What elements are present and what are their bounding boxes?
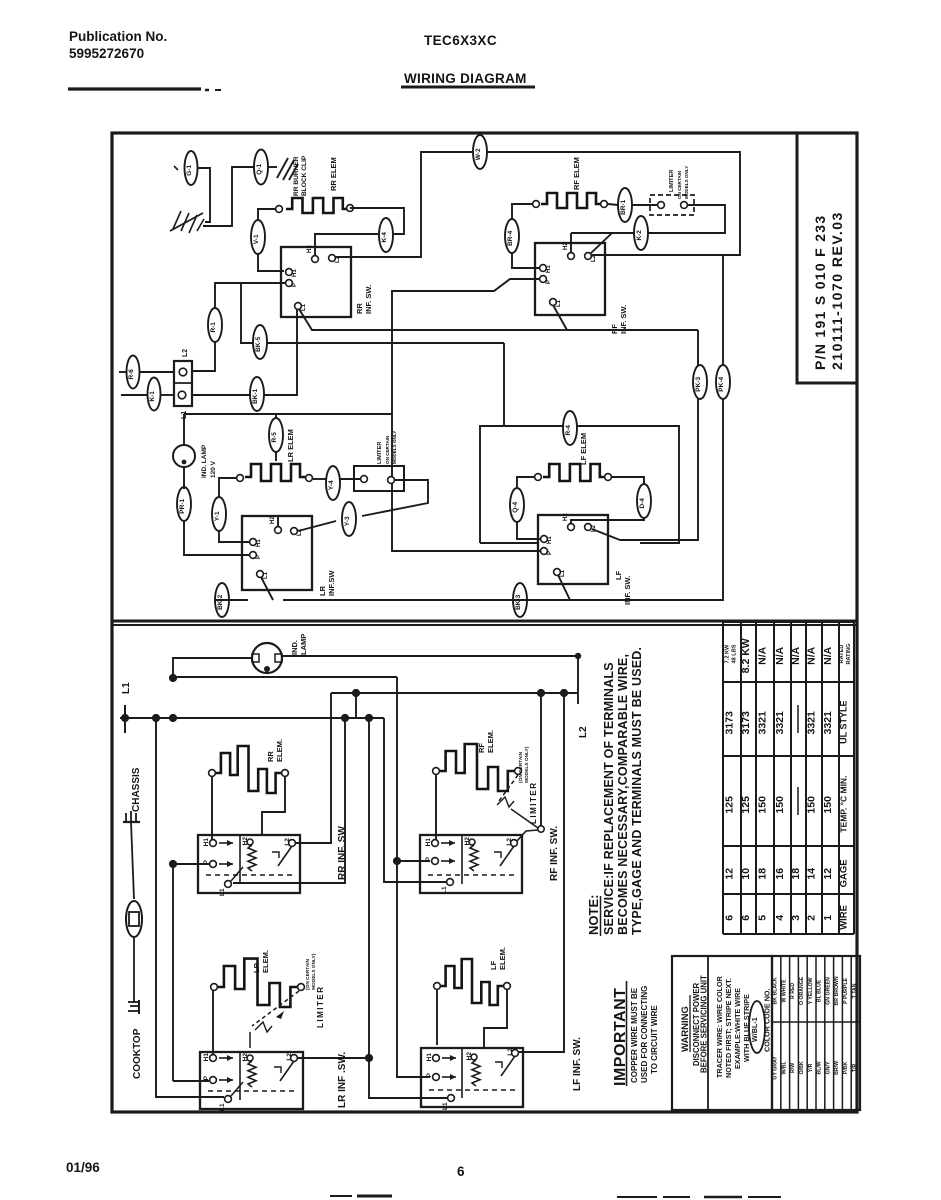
svg-text:Y/R: Y/R	[808, 1063, 814, 1072]
svg-text:BK-5: BK-5	[255, 336, 262, 352]
junction dot RR P feeder	[169, 860, 177, 868]
svg-text:MODELS ONLY): MODELS ONLY)	[524, 746, 530, 783]
svg-text:Y-4: Y-4	[328, 480, 335, 490]
wire tag BK-3	[513, 583, 527, 617]
feeder line y693	[331, 692, 578, 694]
ground symbol G-1 ellipse tag	[185, 151, 198, 185]
svg-text:L2: L2	[578, 726, 589, 738]
svg-text:UL STYLE: UL STYLE	[839, 701, 849, 744]
svg-text:L1: L1	[121, 682, 132, 694]
wire LF elem right to D-4 to LF H2	[612, 477, 644, 484]
wire tag Q-1	[254, 150, 268, 185]
feeder x369 to LF L1	[369, 718, 447, 1098]
svg-text:ON CERTAIN: ON CERTAIN	[677, 170, 682, 199]
wire RR L2 loop over top to RF L2	[335, 152, 473, 257]
wire limiter to K-2 to RF switch L2/H2	[648, 205, 725, 233]
svg-text:BK-1: BK-1	[252, 388, 259, 404]
svg-text:RATED: RATED	[839, 645, 845, 664]
fusible link symbol	[126, 901, 142, 937]
burner block clip hatch	[277, 158, 288, 178]
wire tag R-4	[563, 411, 577, 445]
wire LF P feed riser	[503, 343, 505, 426]
wire tag V-1	[251, 220, 265, 254]
svg-text:L2: L2	[506, 838, 513, 846]
svg-text:6: 6	[457, 1164, 465, 1179]
svg-text:WIRING DIAGRAM: WIRING DIAGRAM	[404, 71, 527, 86]
color code table grid	[772, 956, 860, 1110]
svg-text:Q-4: Q-4	[512, 502, 519, 513]
wire LR cooktop P feeder	[173, 1080, 209, 1082]
RR cooktop terminal L1	[225, 881, 232, 888]
svg-text:150: 150	[757, 796, 769, 814]
svg-text:H2: H2	[307, 245, 313, 253]
LF switch terminal L2	[585, 524, 592, 531]
svg-text:LIMITER: LIMITER	[529, 782, 538, 825]
wire RR elem right to coil	[262, 777, 285, 835]
svg-text:W-2: W-2	[475, 148, 482, 160]
RR cooktop terminal L2	[289, 840, 296, 847]
wire tag Y-4	[326, 466, 340, 500]
svg-text:N/A: N/A	[822, 646, 834, 665]
RR switch terminal L1	[295, 303, 302, 310]
RR cooktop switch contact	[278, 846, 292, 866]
infinite switch LF INF. SW. box (oven)	[538, 515, 608, 584]
wire tag BK-5	[253, 325, 267, 359]
wire LR elem left to Y-1 to LR H1	[219, 478, 236, 497]
cooktop limiter RF dashed contact	[499, 775, 518, 801]
svg-text:LF ELEM: LF ELEM	[579, 433, 588, 465]
svg-text:7.2 KW: 7.2 KW	[725, 644, 731, 663]
LF switch terminal P	[541, 548, 548, 555]
wire RF L2 to limiter node	[517, 830, 538, 841]
svg-text:L1: L1	[560, 569, 566, 577]
wire limiter LR to L2	[362, 480, 428, 516]
wire RF L1 diagonal joining bus	[553, 305, 698, 330]
wire tag Y-1	[212, 497, 226, 531]
LF cooktop switch dashed link	[429, 1089, 519, 1091]
svg-text:RF: RF	[610, 324, 619, 334]
svg-text:P/BK: P/BK	[843, 1061, 849, 1074]
LR cooktop terminal L2	[291, 1055, 298, 1062]
wire LF elem right to coil	[484, 989, 507, 1048]
svg-text:LF: LF	[489, 960, 498, 970]
svg-text:TO CIRCUIT WIRE: TO CIRCUIT WIRE	[650, 1005, 659, 1074]
svg-text:RATING: RATING	[846, 643, 852, 664]
LF cooktop terminal L1	[448, 1095, 455, 1102]
wire LR H2 stub	[277, 516, 279, 527]
svg-text:CHASSIS: CHASSIS	[131, 767, 142, 812]
feeder x345 RR L1	[233, 718, 345, 883]
wire tag K-4	[379, 218, 393, 252]
wire tag PR-1	[177, 487, 191, 521]
wire bus y330 continuing from RR L1	[560, 329, 567, 331]
wire lamp right to L2 terminal	[282, 656, 578, 704]
infinite switch LR INF. SW. box (cooktop)	[200, 1052, 303, 1109]
svg-text:L2: L2	[507, 1048, 514, 1056]
svg-text:COLOR CODE NO.: COLOR CODE NO.	[763, 989, 772, 1053]
warning box	[672, 956, 772, 1110]
svg-text:3: 3	[790, 915, 802, 921]
svg-text:16: 16	[774, 868, 786, 880]
LR cooktop coil H2	[247, 1055, 253, 1061]
LR switch terminal L1	[257, 571, 264, 578]
LR cooktop terminal P	[210, 1077, 217, 1084]
LF switch terminal L1	[554, 569, 561, 576]
svg-text:H2: H2	[464, 837, 471, 846]
RF switch terminal H2	[568, 253, 575, 260]
RF cooktop switch contact	[500, 846, 514, 866]
svg-text:P: P	[547, 551, 553, 555]
svg-text:TEC6X3XC: TEC6X3XC	[424, 33, 497, 48]
svg-text:RF ELEM: RF ELEM	[572, 157, 581, 190]
wire lamp to PR-1 to LR P	[183, 467, 185, 489]
svg-text:N/A: N/A	[774, 646, 786, 665]
wire R-5 element tap riser	[275, 414, 277, 419]
svg-text:150: 150	[774, 796, 786, 814]
svg-text:TYPE,GAGE AND TERMINALS MUST B: TYPE,GAGE AND TERMINALS MUST BE USED.	[630, 647, 644, 935]
svg-text:L1: L1	[219, 1103, 226, 1111]
svg-text:ELEM.: ELEM.	[486, 730, 495, 753]
svg-text:LF: LF	[614, 570, 623, 580]
svg-text:210111-1070 REV.03: 210111-1070 REV.03	[829, 211, 845, 370]
svg-text:150: 150	[806, 796, 818, 814]
wire LF L1 diagonal to bus	[558, 575, 570, 600]
svg-text:T/R: T/R	[852, 1063, 858, 1072]
wire tag BR-1	[618, 188, 632, 222]
junction dot lamp feeder	[169, 674, 177, 682]
svg-text:L2: L2	[286, 1053, 293, 1061]
svg-text:H2: H2	[242, 837, 249, 846]
LF switch terminal H2	[568, 524, 575, 531]
svg-text:P: P	[292, 283, 298, 287]
svg-text:LIMITER: LIMITER	[669, 170, 675, 192]
svg-text:R-6: R-6	[128, 369, 135, 380]
svg-text:LR INF .SW.: LR INF .SW.	[337, 1052, 348, 1108]
svg-text:L1: L1	[556, 299, 562, 307]
wire RR P to terminal block riser and BK-5 run	[241, 283, 285, 343]
heating element LF ELEM (oven)	[543, 464, 605, 481]
oven indicator lamp	[173, 445, 195, 467]
svg-text:COPPER WIRE MUST BE: COPPER WIRE MUST BE	[630, 987, 639, 1083]
RR switch terminal H1	[286, 269, 293, 276]
svg-text:H2: H2	[242, 1053, 249, 1062]
svg-text:BR-4: BR-4	[507, 230, 514, 246]
svg-text:ELEM.: ELEM.	[498, 947, 507, 970]
wire RF P run to indicator feed	[392, 279, 540, 551]
junction dot RF P	[393, 857, 401, 865]
svg-text:6: 6	[740, 915, 752, 921]
RF cooktop terminal P	[432, 858, 439, 865]
svg-text:LIMITER: LIMITER	[377, 442, 383, 464]
svg-text:6: 6	[724, 915, 736, 921]
svg-text:RR BURNER: RR BURNER	[293, 156, 300, 196]
svg-text:COOKTOP: COOKTOP	[132, 1028, 143, 1079]
wire loop rectangle around LF elem	[480, 426, 563, 543]
wire RF-L1 bus riser down to LF L2 node	[697, 330, 699, 365]
heating element RR ELEM (cooktop)	[216, 746, 281, 793]
chassis ground symbol	[125, 813, 127, 821]
title underline rule	[68, 87, 201, 90]
divider line between oven and cooktop sections	[112, 620, 857, 623]
junction dots on y693	[352, 689, 360, 697]
heating element LR ELEM (cooktop)	[218, 959, 297, 1007]
cooktop indicator lamp	[252, 643, 282, 673]
wire LR cooktop L1 feeder	[156, 718, 224, 1097]
RR switch terminal H2	[312, 256, 319, 263]
cooktop terminal symbol	[138, 1000, 140, 1014]
svg-text:3321: 3321	[806, 711, 818, 735]
svg-text:W WHITE: W WHITE	[781, 979, 787, 1003]
svg-text:BEFORE SERVICING UNIT: BEFORE SERVICING UNIT	[700, 975, 709, 1073]
svg-text:LR ELEM: LR ELEM	[286, 429, 295, 462]
svg-text:L1: L1	[442, 1102, 449, 1110]
svg-text:10: 10	[740, 868, 752, 880]
wire terminal block L1 to BK-1 to RR L1	[192, 394, 250, 396]
wire RF elem left to H1	[435, 775, 437, 840]
LF switch terminal H1	[541, 536, 548, 543]
svg-text:P: P	[546, 280, 552, 284]
svg-text:P PURPLE: P PURPLE	[843, 977, 849, 1003]
wire LR elem right to limiter	[313, 478, 326, 480]
svg-text:T TAN: T TAN	[852, 983, 858, 998]
svg-text:H1: H1	[203, 1053, 210, 1062]
svg-text:V-1: V-1	[253, 234, 260, 244]
wire tag R-1	[208, 308, 222, 342]
svg-text:BR BROWN: BR BROWN	[834, 976, 840, 1005]
svg-text:R-1: R-1	[210, 322, 217, 333]
feeder x357 bus link	[355, 693, 357, 718]
feeder x541 to RF limiter	[540, 693, 542, 827]
LR cooktop switch contact	[280, 1061, 294, 1081]
supply terminal block	[174, 361, 192, 406]
wire tag BK-2	[215, 583, 229, 617]
junction dot at L2 drop	[575, 653, 581, 659]
svg-text:(ON CERTAIN: (ON CERTAIN	[305, 958, 311, 990]
wire supply L1 lead	[121, 394, 147, 396]
svg-text:RF: RF	[477, 743, 486, 753]
LR cooktop terminal H1	[210, 1055, 217, 1062]
wire tag W-2	[473, 135, 487, 169]
svg-text:Publication No.: Publication No.	[69, 29, 167, 44]
heating element LF ELEM (cooktop)	[441, 959, 503, 1005]
svg-text:RR ELEM: RR ELEM	[329, 157, 338, 191]
oven limiter (dashed, on certain models)	[650, 195, 694, 215]
svg-text:K-4: K-4	[381, 232, 388, 243]
svg-text:BK-3: BK-3	[515, 594, 522, 610]
svg-text:R-5: R-5	[271, 432, 278, 443]
diagram outer border	[112, 133, 857, 1112]
svg-text:K-2: K-2	[636, 230, 643, 241]
cooktop limiter LR dashed contact	[252, 991, 299, 1026]
wire tag K-2	[634, 216, 648, 250]
RF cooktop terminal H1	[432, 840, 439, 847]
wire RR cooktop L2 out	[296, 842, 331, 844]
svg-text:14: 14	[806, 868, 818, 880]
svg-text:INF. SW.: INF. SW.	[623, 576, 632, 605]
svg-text:GN GREEN: GN GREEN	[825, 977, 831, 1005]
heating element RF ELEM (oven)	[541, 193, 601, 208]
wire tag R-5	[269, 418, 283, 452]
LR switch terminal H2	[275, 527, 282, 534]
svg-text:L1: L1	[263, 571, 269, 579]
RR cooktop L1 contact arm	[231, 867, 243, 881]
RF switch terminal H1	[540, 265, 547, 272]
wire LR-L1 bus riser	[722, 255, 724, 365]
svg-text:18: 18	[790, 868, 802, 880]
svg-text:G-1: G-1	[186, 165, 193, 176]
RR cooktop terminal H1	[210, 840, 217, 847]
svg-text:L1: L1	[219, 888, 226, 896]
svg-text:(ON CERTAIN: (ON CERTAIN	[518, 751, 524, 783]
LR switch terminal P	[250, 552, 257, 559]
wire G-1 to chassis hatch	[198, 168, 210, 222]
RF cooktop terminal L1	[447, 879, 454, 886]
svg-text:H2: H2	[563, 513, 569, 521]
svg-text:2: 2	[806, 915, 818, 921]
RR switch terminal P	[286, 280, 293, 287]
feeder x384 to RF L1	[384, 718, 446, 882]
heating element RR ELEM (oven)	[286, 198, 348, 213]
svg-text:BR/W: BR/W	[834, 1061, 840, 1075]
wire tag R-6	[127, 356, 140, 389]
svg-text:Q-1: Q-1	[256, 164, 263, 175]
svg-text:1: 1	[822, 915, 834, 921]
svg-text:TRACER WIRE: WIRE COLOR: TRACER WIRE: WIRE COLOR	[715, 975, 724, 1078]
svg-text:L2: L2	[591, 524, 597, 532]
svg-text:IND. LAMP: IND. LAMP	[201, 444, 208, 478]
svg-text:BLOCK CLIP: BLOCK CLIP	[301, 155, 308, 196]
svg-text:P: P	[425, 856, 432, 861]
wire gauge table grid	[722, 622, 724, 934]
svg-text:BK-2: BK-2	[217, 594, 224, 610]
svg-text:BR-1: BR-1	[620, 199, 627, 215]
wire Q-1 to block clip hatch	[268, 166, 277, 168]
svg-text:PK-4: PK-4	[718, 377, 725, 392]
chassis ground hatch 1	[170, 213, 203, 231]
svg-text:RF INF. SW.: RF INF. SW.	[549, 826, 560, 881]
RF switch terminal L1	[550, 299, 557, 306]
wire RR cooktop P	[173, 863, 209, 865]
wire to RF P	[397, 860, 430, 862]
svg-text:O ORANGE: O ORANGE	[799, 976, 805, 1005]
svg-text:BECOMES NECESSARY,COMPARABLE W: BECOMES NECESSARY,COMPARABLE WIRE,	[616, 654, 630, 935]
svg-text:H1: H1	[256, 539, 262, 547]
LR cooktop terminal L1	[225, 1096, 232, 1103]
wire RF H2 stub	[570, 233, 572, 253]
svg-text:ON CERTAIN: ON CERTAIN	[385, 435, 390, 464]
svg-text:R RED: R RED	[790, 983, 796, 999]
svg-text:RR: RR	[355, 303, 364, 314]
svg-text:H1: H1	[546, 265, 552, 273]
svg-text:12: 12	[822, 868, 834, 880]
feeder x564 to LF L2	[519, 693, 564, 1052]
svg-text:TEMP. °C MIN.: TEMP. °C MIN.	[839, 776, 849, 833]
svg-text:3321: 3321	[757, 711, 769, 735]
svg-text:INF. SW.: INF. SW.	[364, 285, 373, 314]
wire RR elem left to H1	[211, 777, 213, 840]
infinite switch RF INF. SW. box	[535, 243, 605, 315]
wire RR elem right to K-4 to RR switch H2	[350, 208, 404, 234]
wire tag PK-4	[716, 365, 730, 399]
RF cooktop switch dashed link	[428, 874, 518, 876]
infinite switch RF INF. SW box (cooktop)	[420, 835, 522, 893]
svg-text:LAMP: LAMP	[299, 634, 308, 655]
wire BK-2 stub on L1 bus	[215, 599, 248, 601]
svg-text:5: 5	[757, 915, 769, 921]
svg-text:48 LBS: 48 LBS	[732, 644, 738, 663]
wire tag BK-1	[250, 377, 264, 411]
svg-text:BL/W: BL/W	[817, 1061, 823, 1074]
wire LR L1 diagonal to bus	[261, 577, 273, 600]
svg-text:GN/Y: GN/Y	[825, 1061, 831, 1074]
svg-text:150: 150	[822, 796, 834, 814]
wire hatch to Q-1 riser	[203, 167, 254, 226]
svg-text:12: 12	[724, 868, 736, 880]
wire supply L2 lead	[119, 371, 126, 373]
svg-text:BL BLUE: BL BLUE	[817, 979, 823, 1002]
svg-text:P: P	[256, 555, 262, 559]
feeder x397 to RF P and LF P	[397, 677, 430, 1077]
svg-text:P: P	[426, 1072, 433, 1077]
wire RF elem right to BR-1 to limiter	[608, 204, 618, 205]
wire LF elem left to Q-4 to LF H1	[517, 477, 534, 489]
oven limiter LR (on certain models)	[354, 466, 404, 491]
LF cooktop coil H2	[471, 1054, 477, 1060]
svg-text:MODELS ONLY): MODELS ONLY)	[311, 953, 317, 990]
svg-text:3321: 3321	[822, 711, 834, 735]
RF switch terminal L2	[585, 253, 592, 260]
svg-text:MODELS ONLY: MODELS ONLY	[684, 166, 689, 199]
svg-text:125: 125	[724, 796, 736, 814]
RF switch terminal P	[540, 276, 547, 283]
svg-text:L1: L1	[441, 886, 448, 894]
svg-text:N/A: N/A	[757, 646, 769, 665]
wire tag K-1	[148, 378, 161, 411]
svg-text:3173: 3173	[740, 711, 752, 735]
svg-text:H1: H1	[203, 838, 210, 847]
LR cooktop L1 contact arm	[231, 1082, 243, 1096]
svg-text:H1: H1	[547, 536, 553, 544]
svg-text:4: 4	[774, 915, 786, 921]
svg-text:NOTE:: NOTE:	[586, 895, 601, 935]
wire Y-3 to LR L2	[298, 521, 336, 531]
svg-text:BK BLACK: BK BLACK	[773, 977, 779, 1004]
wire riser terminal block L2 to R-1 to P row	[192, 342, 215, 371]
heating element RF ELEM (cooktop)	[440, 744, 514, 791]
svg-text:O/BK: O/BK	[799, 1061, 805, 1074]
wire tag D-4	[637, 484, 651, 518]
svg-text:LIMITER: LIMITER	[316, 986, 325, 1029]
svg-text:USED FOR CONNECTING: USED FOR CONNECTING	[640, 986, 649, 1083]
RR cooktop switch dashed link	[206, 874, 296, 876]
L1 feed tick	[124, 705, 126, 733]
LR cooktop switch dashed link	[208, 1090, 298, 1092]
svg-text:EXAMPLE:WHITE WIRE: EXAMPLE:WHITE WIRE	[733, 988, 742, 1069]
LF cooktop switch contact	[501, 1056, 515, 1076]
svg-text:LR: LR	[318, 585, 327, 596]
footer stray scan marks	[330, 1195, 352, 1197]
wire link to cooktop symbol	[133, 937, 135, 1002]
wire LR cooktop L2 out	[298, 1057, 369, 1059]
infinite switch RR INF. SW box (cooktop)	[198, 835, 300, 893]
tracer example ellipse	[749, 1001, 765, 1053]
RF cooktop terminal L2	[511, 840, 518, 847]
svg-text:WIRE: WIRE	[839, 905, 850, 930]
svg-text:W/BL-1: W/BL-1	[750, 1017, 759, 1042]
feeder line y677	[173, 676, 397, 678]
wire tag PK-3	[693, 365, 707, 399]
svg-text:125: 125	[740, 796, 752, 814]
